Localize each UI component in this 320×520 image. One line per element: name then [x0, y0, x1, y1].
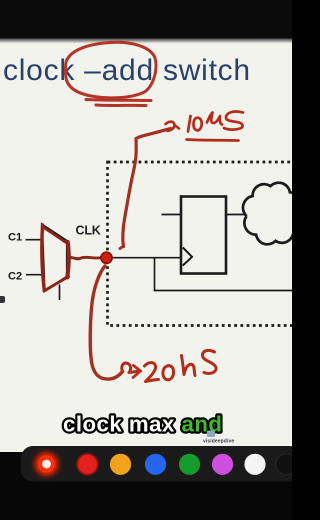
svg-text:CLK: CLK — [76, 224, 101, 238]
svg-text:visideepdive: visideepdive — [203, 439, 234, 445]
svg-text:C1: C1 — [8, 232, 22, 244]
svg-text:clock –add switch: clock –add switch — [3, 54, 251, 87]
svg-text:clock max and: clock max and — [63, 412, 222, 437]
svg-text:C2: C2 — [8, 271, 22, 283]
